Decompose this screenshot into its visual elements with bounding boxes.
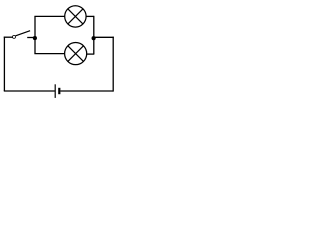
battery B1 short plate (-): [58, 88, 60, 94]
wire: right horizontal (node B to right vertical): [93, 36, 113, 38]
switch S1 pivot circle: [13, 35, 16, 38]
wire: left branch vertical (node A up to top branch, down to middle branch): [34, 16, 36, 53]
node B junction dot (right): [92, 36, 96, 40]
wire: bottom right (battery to bottom-right corner): [60, 90, 113, 92]
wire: middle branch left horizontal (to lamp L2): [34, 53, 64, 55]
switch S1 blade (open): [16, 31, 31, 36]
lamp L2 cross leg 2: [68, 46, 84, 62]
node A junction dot (left): [33, 36, 37, 40]
wire: switch right contact lead to node A: [27, 37, 35, 39]
wire: right vertical (bottom-right corner up to right branch corner): [112, 37, 114, 92]
battery B1 long plate (+): [54, 84, 56, 98]
lamp L1 cross leg 2: [68, 9, 83, 24]
lamp L2 circle: [65, 43, 87, 65]
wire: top branch right horizontal (lamp L1 to right corner): [86, 15, 94, 17]
wire: right branch vertical (top corner down through node B to middle corner): [93, 16, 95, 54]
wire: switch left lead (from left vertical corner to pivot): [4, 36, 13, 38]
wire: left vertical (switch to bottom-left corner): [3, 37, 5, 91]
lamp L1 circle: [65, 6, 86, 27]
wire: top branch left horizontal (to lamp L1): [34, 15, 64, 17]
lamp L2 cross leg 1: [68, 46, 84, 62]
wire: middle branch right horizontal (lamp L2 to right branch): [87, 53, 95, 55]
lamp L1 cross leg 1: [68, 9, 83, 24]
wire: bottom left (corner to battery long plate): [4, 90, 55, 92]
